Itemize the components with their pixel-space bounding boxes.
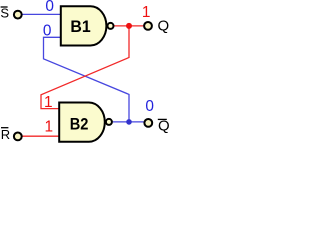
svg-text:B1: B1 bbox=[70, 17, 90, 36]
svg-text:0: 0 bbox=[43, 22, 52, 39]
svg-text:R: R bbox=[1, 127, 10, 142]
svg-text:1: 1 bbox=[142, 4, 151, 21]
svg-text:0: 0 bbox=[45, 0, 54, 15]
svg-text:B2: B2 bbox=[70, 115, 89, 134]
svg-text:S: S bbox=[0, 6, 9, 21]
svg-text:1: 1 bbox=[44, 94, 53, 111]
svg-text:0: 0 bbox=[145, 98, 154, 115]
svg-text:Q: Q bbox=[158, 18, 170, 35]
svg-text:1: 1 bbox=[45, 119, 54, 136]
